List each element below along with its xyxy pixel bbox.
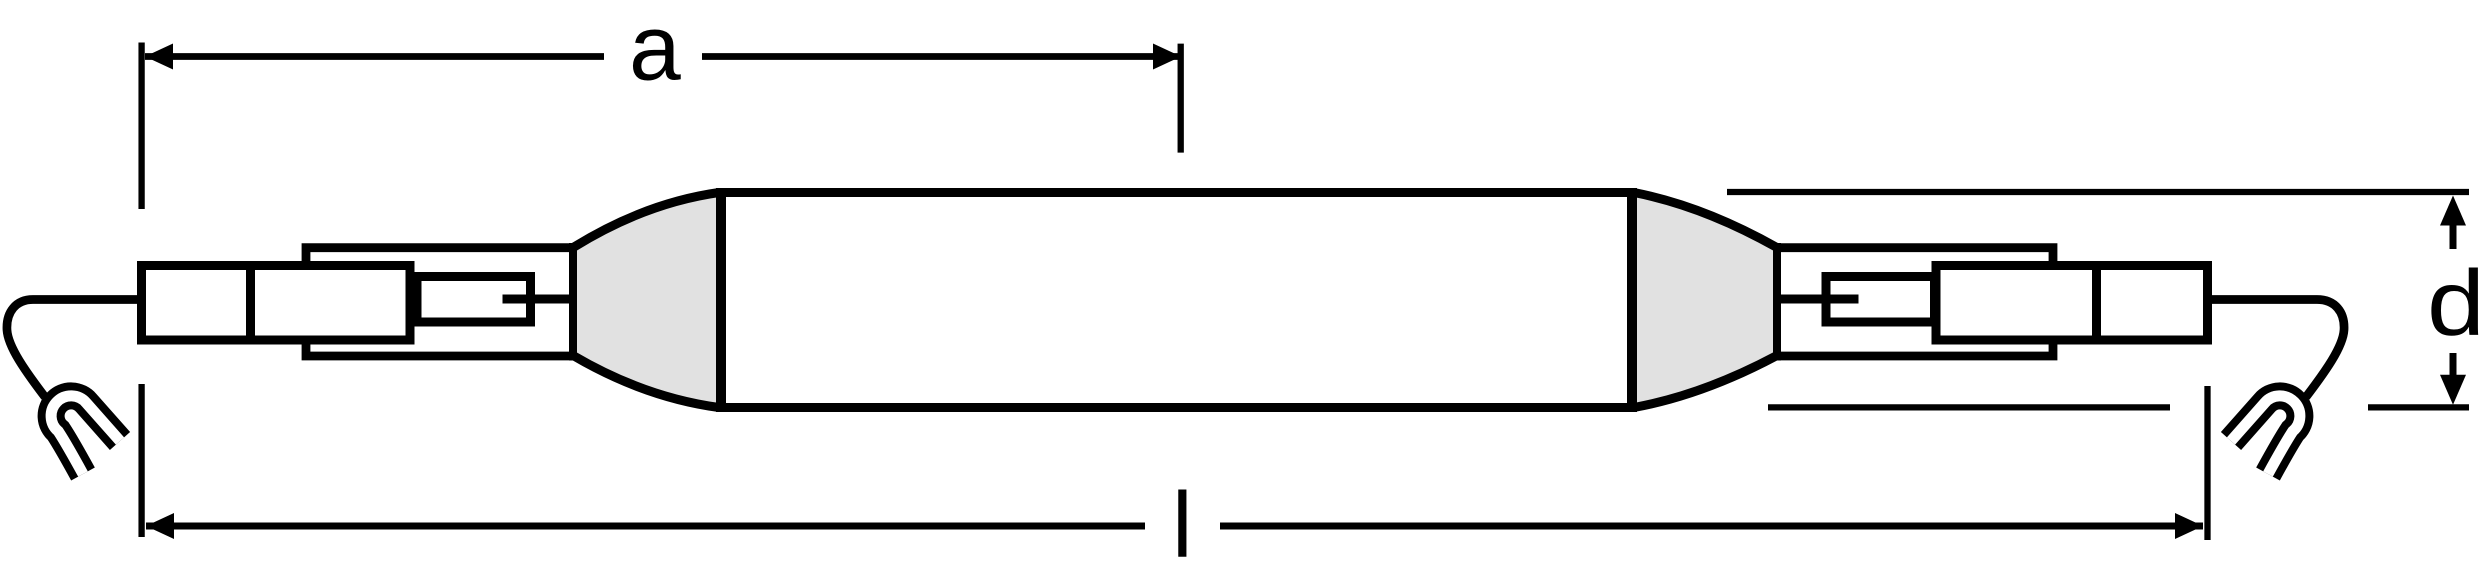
dimension d upper arrowhead bbox=[2440, 196, 2466, 226]
dimension d lower arrow shaft bbox=[2450, 353, 2457, 378]
dimension d upper arrow shaft bbox=[2450, 222, 2457, 249]
extension line d bottom right segment bbox=[2368, 404, 2469, 410]
left ceramic block divider bbox=[246, 266, 255, 341]
right cable bbox=[2208, 300, 2344, 398]
lamp bulb right taper gray fill bbox=[1632, 193, 1777, 408]
svg-text:d: d bbox=[2427, 251, 2480, 355]
dimension d label bbox=[2427, 251, 2480, 355]
svg-text:l: l bbox=[1172, 473, 1193, 576]
bulb left neck wall bbox=[569, 243, 577, 361]
left contact tube bbox=[417, 277, 531, 323]
right hook bbox=[2231, 396, 2300, 474]
right base sleeve bbox=[1777, 248, 2053, 356]
left base sleeve bbox=[306, 248, 573, 356]
right lead wire bbox=[1777, 295, 1859, 304]
dimension l line right segment bbox=[1220, 523, 2203, 530]
left ceramic block outer bbox=[142, 266, 411, 341]
dimension l label bbox=[1172, 473, 1193, 576]
bulb right taper bottom curve bbox=[1634, 356, 1776, 408]
right ceramic block divider bbox=[2092, 266, 2101, 341]
extension line d top bbox=[1727, 189, 2469, 195]
left cable bbox=[7, 300, 141, 398]
bulb cylinder bottom line bbox=[716, 403, 1634, 412]
svg-text:a: a bbox=[629, 0, 681, 100]
extension line left upper bbox=[138, 43, 144, 210]
dimension a left arrowhead bbox=[145, 44, 173, 70]
bulb left taper top curve bbox=[574, 193, 719, 248]
dimension l line left segment bbox=[146, 523, 1145, 530]
lamp bulb left taper gray fill bbox=[573, 193, 721, 408]
extension line a right bbox=[1178, 44, 1184, 153]
bulb right separator line bbox=[1627, 188, 1637, 412]
dimension l left arrowhead bbox=[146, 513, 174, 539]
left hook bbox=[51, 396, 120, 474]
bulb left separator line bbox=[716, 188, 726, 412]
bulb right taper top curve bbox=[1634, 193, 1776, 248]
extension line left lower bbox=[138, 384, 144, 537]
dimension a right arrowhead bbox=[1153, 44, 1181, 70]
dimension a line left segment bbox=[145, 53, 604, 60]
extension line d bottom left segment bbox=[1768, 404, 2170, 410]
bulb right neck wall bbox=[1773, 243, 1781, 361]
bulb cylinder top line bbox=[716, 188, 1634, 197]
dimension d lower arrowhead bbox=[2440, 375, 2466, 405]
bulb left taper bottom curve bbox=[574, 356, 719, 408]
right ceramic block outer bbox=[1936, 266, 2208, 341]
right contact tube bbox=[1826, 277, 1935, 323]
dimension a line right segment bbox=[702, 53, 1181, 60]
dimension l right arrowhead bbox=[2175, 513, 2203, 539]
left lead wire bbox=[503, 295, 574, 304]
extension line l right bbox=[2204, 386, 2210, 540]
dimension a label bbox=[629, 0, 681, 100]
